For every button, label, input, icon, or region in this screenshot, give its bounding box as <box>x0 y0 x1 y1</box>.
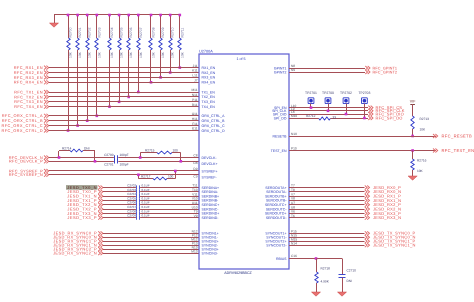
svg-text:R2715: R2715 <box>145 148 155 152</box>
pin SERDOUTB- <box>266 197 295 203</box>
node RFC_ORX_CTRL_A <box>2 113 49 118</box>
pin ORX_CTRL_C <box>192 122 225 128</box>
svg-text:R2717: R2717 <box>141 174 151 178</box>
resistor R2712 <box>306 114 336 120</box>
svg-text:10K: 10K <box>120 51 124 58</box>
svg-text:DNI: DNI <box>84 147 90 151</box>
wire SPI_DO <box>289 118 368 120</box>
node RFC_SPI_DIO <box>368 111 404 116</box>
svg-text:R2718: R2718 <box>321 266 331 270</box>
svg-text:C8: C8 <box>193 154 197 158</box>
svg-text:SERDOUTD-: SERDOUTD- <box>266 216 288 220</box>
wire RFC_ORX_CTRL_D <box>49 130 199 132</box>
node JESD_TX_SYNC1_P <box>365 239 416 244</box>
node RFC_SPI_CLK <box>368 108 404 113</box>
svg-text:SYNCOUT2-: SYNCOUT2- <box>266 243 287 247</box>
svg-text:D8: D8 <box>193 161 197 165</box>
pin SYNCIN3- <box>191 249 218 255</box>
resistor R2708 <box>149 14 156 84</box>
node JESD_RX_SYNC0_N <box>53 235 103 240</box>
ground <box>408 176 417 180</box>
pin SPI_CLK <box>272 107 295 113</box>
pin TX1_EN <box>192 88 216 94</box>
wire GPINT2 <box>289 72 365 74</box>
svg-text:L11: L11 <box>192 74 197 78</box>
pin ORX_CTRL_A <box>192 112 225 118</box>
pin TX4_EN <box>192 103 215 109</box>
node JESD_TX_SYNC1_N <box>365 243 416 248</box>
svg-text:10K: 10K <box>129 51 133 58</box>
pin RBIAS <box>276 254 297 261</box>
node RFC_RESETB <box>433 133 472 138</box>
svg-text:C9: C9 <box>193 174 197 178</box>
node RFC_GPINT1 <box>365 66 397 70</box>
node RFC_RX3_EN <box>14 75 49 80</box>
svg-text:R2716: R2716 <box>417 159 427 163</box>
node RFC_TEST_EN <box>433 148 474 153</box>
capacitor C2709 <box>127 214 150 220</box>
node RFC_SYSREF_N <box>9 172 49 177</box>
wire ground bus <box>54 14 180 16</box>
pin TX2_EN <box>192 93 215 99</box>
test point TP2701 <box>305 91 317 109</box>
svg-text:10K: 10K <box>139 51 143 58</box>
pin SPI_DO <box>274 114 298 120</box>
wire JESD_RX_SYNC2_N <box>103 253 199 255</box>
resistor R2713 <box>411 116 429 137</box>
svg-text:VIF: VIF <box>410 100 416 104</box>
svg-text:R2704: R2704 <box>110 27 114 37</box>
pin SERDOUTC+ <box>265 201 295 207</box>
svg-text:10K: 10K <box>110 51 114 58</box>
pin SERDINC- <box>192 205 220 211</box>
wire SERDOUTB- <box>289 200 365 202</box>
svg-text:M11: M11 <box>192 88 198 92</box>
svg-text:TX2_EN: TX2_EN <box>202 95 216 99</box>
svg-text:JESD_TX3_P: JESD_TX3_P <box>67 215 97 220</box>
wire RFC_RX2_EN <box>49 72 199 74</box>
wire JESD_TX3_P <box>103 217 199 219</box>
svg-text:4.99K: 4.99K <box>321 280 330 284</box>
wire TEST_EN <box>289 150 436 152</box>
svg-text:JESD_TX_SYNC1_N: JESD_TX_SYNC1_N <box>373 243 416 248</box>
svg-text:ORX_CTRL_C: ORX_CTRL_C <box>202 124 226 128</box>
pin SPI_DIO <box>273 110 295 116</box>
pin SYNCIN1+ <box>192 230 219 236</box>
capacitor C2703 <box>127 188 150 194</box>
svg-text:N11: N11 <box>192 93 198 97</box>
svg-text:R2707: R2707 <box>139 27 143 37</box>
wire RFC_TX4_EN <box>49 106 199 108</box>
node JESD_RX0_P <box>365 185 401 190</box>
capacitor C2702 <box>127 184 150 190</box>
svg-text:TX3_EN: TX3_EN <box>202 100 216 104</box>
test point TP2703 <box>358 91 370 119</box>
svg-text:SYSREF+: SYSREF+ <box>202 169 218 173</box>
resistor R2709 <box>159 14 165 79</box>
svg-text:RFC_RESETB: RFC_RESETB <box>442 133 473 138</box>
wire RFC_ORX_CTRL_C <box>49 125 199 127</box>
node JESD_TX3_N <box>67 211 103 216</box>
pin SERDINA- <box>192 188 219 194</box>
wire SPI_CLK <box>289 110 368 112</box>
wire SERDOUTD- <box>289 217 365 219</box>
svg-text:R2702: R2702 <box>88 27 92 37</box>
node RFC_RX4_EN <box>14 80 49 85</box>
svg-text:RFC_SPI_DO: RFC_SPI_DO <box>376 115 403 120</box>
resistor R2714 <box>58 147 97 163</box>
svg-text:SYNCIN3-: SYNCIN3- <box>202 251 219 255</box>
node JESD_TX_SYNC0_P <box>365 231 416 236</box>
svg-text:RFC_RX4_EN: RFC_RX4_EN <box>14 80 43 85</box>
ground <box>337 292 346 296</box>
node JESD_TX2_P <box>67 206 103 211</box>
pin RESETB <box>272 132 297 138</box>
svg-text:DEVCLK+: DEVCLK+ <box>202 162 218 166</box>
wire SYNCOUT1+ <box>289 233 365 235</box>
wire RFC_SYSREF_P <box>49 170 199 172</box>
op-amp U2700A <box>199 50 289 275</box>
wire SERDOUTA+ <box>289 187 365 189</box>
capacitor C2700 <box>104 153 128 160</box>
pin ORX_CTRL_D <box>192 127 225 133</box>
wire JESD_RX_SYNC0_P <box>103 233 199 235</box>
pin SERDIND- <box>194 214 220 220</box>
svg-text:C2701: C2701 <box>104 162 114 166</box>
node JESD_TX0_N <box>66 185 103 190</box>
node JESD_RX2_P <box>365 202 401 207</box>
svg-text:0.1UF: 0.1UF <box>142 214 150 218</box>
pin SYNCOUT1+ <box>265 230 297 236</box>
pin RX1_EN <box>193 64 216 70</box>
node JESD_TX1_N <box>67 194 103 199</box>
svg-text:RBIAS: RBIAS <box>276 257 287 261</box>
capacitor C2704 <box>127 192 150 198</box>
svg-text:RX3_EN: RX3_EN <box>202 76 216 80</box>
test point TP2702 <box>340 91 352 115</box>
node RFC_TX1_EN <box>14 89 49 94</box>
svg-text:RX2_EN: RX2_EN <box>202 71 216 75</box>
svg-text:TX4_EN: TX4_EN <box>202 105 216 109</box>
svg-text:J7: J7 <box>194 79 198 83</box>
node RFC_DEVCLK_P <box>9 159 49 164</box>
resistor R2706 <box>127 14 133 99</box>
svg-text:TP2703: TP2703 <box>358 91 370 95</box>
resistor R2703 <box>95 14 102 117</box>
svg-text:H11: H11 <box>192 117 198 121</box>
svg-text:R2712: R2712 <box>306 114 316 118</box>
pin ORX_CTRL_B <box>192 117 225 123</box>
svg-text:10K: 10K <box>171 51 175 58</box>
node JESD_RX_SYNC2_N <box>53 251 103 256</box>
node RFC_SPI_DO <box>368 115 402 120</box>
node RFC_GPINT2 <box>365 70 397 74</box>
svg-text:C2710: C2710 <box>347 269 357 273</box>
wire JESD_TX3_N <box>103 213 199 215</box>
wire RESETB <box>289 136 436 138</box>
pin DEVCLK- <box>193 154 217 160</box>
svg-text:RFC_ORX_CTRL_D: RFC_ORX_CTRL_D <box>2 128 44 133</box>
wire RFC_RX3_EN <box>49 77 199 79</box>
svg-text:R11: R11 <box>192 103 198 107</box>
resistor R2701 <box>76 14 82 127</box>
capacitor C2710 <box>339 259 357 293</box>
wire JESD_RX_SYNC2_P <box>103 249 199 251</box>
node RFC_DEVCLK_N <box>9 155 49 160</box>
resistor R2705 <box>118 14 124 103</box>
svg-text:RX1_EN: RX1_EN <box>202 66 216 70</box>
wire SERDOUTB+ <box>289 196 365 198</box>
pin SYNCIN2- <box>192 241 219 247</box>
svg-text:R2710: R2710 <box>171 27 175 37</box>
wire SERDOUTA- <box>289 191 365 193</box>
svg-text:10K: 10K <box>78 51 82 58</box>
svg-text:DNI: DNI <box>347 279 353 283</box>
svg-text:R2711: R2711 <box>180 28 184 38</box>
pin SERDOUTA- <box>266 188 295 194</box>
node JESD_RX_SYNC1_N <box>53 243 103 248</box>
pin SYSREF- <box>193 174 217 179</box>
node RFC_ORX_CTRL_D <box>2 128 49 133</box>
node JESD_RX0_N <box>365 189 402 194</box>
svg-text:100pF: 100pF <box>120 153 129 157</box>
pin SYNCIN2+ <box>191 237 218 243</box>
ground <box>49 15 58 27</box>
svg-text:R2701: R2701 <box>78 27 82 37</box>
pin RX3_EN <box>192 74 215 80</box>
svg-text:DEVCLK-: DEVCLK- <box>202 156 218 160</box>
svg-text:R2703: R2703 <box>97 27 101 37</box>
wire SERDOUTD+ <box>289 213 365 215</box>
wire RFC_RX1_EN <box>49 67 199 69</box>
node JESD_RX3_N <box>365 215 402 220</box>
svg-text:J11: J11 <box>193 64 198 68</box>
svg-text:10K: 10K <box>97 51 101 58</box>
svg-text:10K: 10K <box>180 51 184 58</box>
svg-text:JESD_RX_SYNC2_N: JESD_RX_SYNC2_N <box>53 251 97 256</box>
svg-text:R2713: R2713 <box>420 117 430 121</box>
power VIF <box>410 100 416 116</box>
wire GPINT1 <box>289 68 365 70</box>
node RFC_RX1_EN <box>14 65 49 70</box>
svg-text:SPI_DO: SPI_DO <box>274 116 287 120</box>
ground <box>311 292 320 296</box>
svg-text:SERDIND-: SERDIND- <box>202 216 220 220</box>
svg-text:ORX_CTRL_D: ORX_CTRL_D <box>202 129 226 133</box>
wire RFC_DEVCLK_P <box>49 161 199 163</box>
wire JESD_RX_SYNC1_P <box>103 241 199 243</box>
pin GPINT2 <box>274 68 295 74</box>
svg-text:100: 100 <box>168 174 174 178</box>
pin SYNCIN1- <box>192 233 219 239</box>
resistor R2716 <box>411 149 427 176</box>
resistor R2707 <box>137 14 143 94</box>
resistor R2702 <box>86 14 92 122</box>
node JESD_RX_SYNC1_P <box>53 239 103 244</box>
svg-text:JESD_RX3_N: JESD_RX3_N <box>373 215 401 220</box>
svg-text:D9: D9 <box>193 167 197 171</box>
svg-text:R2709: R2709 <box>161 27 165 37</box>
wire JESD_TX2_N <box>103 204 199 206</box>
svg-text:R2706: R2706 <box>129 27 133 37</box>
svg-text:33: 33 <box>333 116 337 120</box>
pin SERDINB- <box>192 197 219 203</box>
pin DEVCLK+ <box>193 161 217 166</box>
pin GPINT1 <box>274 64 295 70</box>
pin RX2_EN <box>192 69 216 75</box>
capacitor C2707 <box>127 205 150 211</box>
svg-text:100pF: 100pF <box>120 162 129 166</box>
svg-text:TEST_EN: TEST_EN <box>271 149 287 153</box>
svg-text:TP2701: TP2701 <box>305 91 317 95</box>
wire RBIAS <box>289 257 342 260</box>
wire RFC_TX3_EN <box>49 101 199 103</box>
pin SERDOUTD- <box>266 214 295 220</box>
node RFC_TX3_EN <box>14 99 49 104</box>
wire RFC_RX4_EN <box>49 82 199 84</box>
wire JESD_RX_SYNC0_N <box>103 237 199 239</box>
svg-text:RFC_GPINT2: RFC_GPINT2 <box>373 70 398 74</box>
svg-text:F11: F11 <box>192 122 197 126</box>
pin SYNCOUT2+ <box>265 237 297 243</box>
wire RFC_ORX_CTRL_B <box>49 120 199 122</box>
pin SPI_EN <box>274 104 296 110</box>
svg-text:E11: E11 <box>192 127 198 131</box>
node RFC_TX2_EN <box>14 94 49 99</box>
svg-text:10K: 10K <box>152 51 156 58</box>
svg-text:RFC_TEST_EN: RFC_TEST_EN <box>442 148 474 153</box>
resistor R2717 <box>137 170 177 180</box>
pin SERDOUTA+ <box>265 184 295 190</box>
svg-text:10K: 10K <box>88 51 92 58</box>
pin SYSREF+ <box>193 167 217 173</box>
svg-text:C2709: C2709 <box>127 214 136 218</box>
capacitor C2706 <box>127 201 150 207</box>
pin TX3_EN <box>192 98 215 104</box>
test point TP2700 <box>322 91 334 112</box>
wire JESD_TX1_P <box>103 200 199 202</box>
wire SPI_DIO <box>289 114 368 116</box>
node RFC_RX2_EN <box>14 70 49 75</box>
wire RFC_TX2_EN <box>49 96 199 98</box>
svg-text:TP2702: TP2702 <box>340 91 352 95</box>
pin SYNCIN3+ <box>192 245 219 251</box>
node JESD_TX0_P <box>67 189 103 194</box>
svg-text:1 of 5: 1 of 5 <box>237 57 246 61</box>
pin RX4_EN <box>194 79 215 85</box>
node JESD_RX1_P <box>365 194 401 199</box>
svg-text:10K: 10K <box>69 51 73 58</box>
node RFC_SYSREF_P <box>9 168 49 173</box>
svg-text:M10: M10 <box>291 114 297 118</box>
svg-text:ADRV9029BBCZ: ADRV9029BBCZ <box>224 271 252 275</box>
wire SPI_EN <box>289 107 368 109</box>
wire SYNCOUT2- <box>289 245 365 247</box>
svg-text:RFC_SYSREF_N: RFC_SYSREF_N <box>9 172 43 177</box>
svg-text:10K: 10K <box>417 169 424 173</box>
resistor R2711 <box>178 14 185 69</box>
svg-text:P11: P11 <box>192 98 198 102</box>
svg-text:10K: 10K <box>161 51 165 58</box>
wire JESD_TX0_N <box>103 187 199 189</box>
svg-text:R2714: R2714 <box>62 147 72 151</box>
node RFC_ORX_CTRL_C <box>2 123 49 128</box>
svg-text:K11: K11 <box>192 69 198 73</box>
node JESD_TX3_P <box>67 215 103 220</box>
svg-text:10K: 10K <box>420 128 427 132</box>
pin SERDINC+ <box>192 201 219 207</box>
pin SERDOUTC- <box>266 205 296 211</box>
svg-text:C2700: C2700 <box>104 153 114 157</box>
node RFC_SPI_CS <box>368 105 402 110</box>
svg-text:RFC_DEVCLK_P: RFC_DEVCLK_P <box>9 159 43 164</box>
wire SERDOUTC+ <box>289 204 365 206</box>
svg-text:C16: C16 <box>291 254 297 258</box>
wire SYNCOUT2+ <box>289 241 365 243</box>
node JESD_RX1_N <box>365 198 402 203</box>
pin SERDINB+ <box>192 192 219 198</box>
pin SERDINA+ <box>192 184 219 190</box>
node JESD_RX_SYNC2_P <box>53 247 103 252</box>
node JESD_TX2_N <box>67 202 103 207</box>
wire JESD_TX0_P <box>103 191 199 193</box>
wire RFC_SYSREF_N <box>49 174 199 176</box>
node JESD_RX2_N <box>365 206 402 211</box>
wire JESD_RX_SYNC1_N <box>103 245 199 247</box>
svg-text:M13: M13 <box>191 249 197 253</box>
node JESD_TX1_P <box>67 198 103 203</box>
pin SERDOUTD+ <box>265 210 295 216</box>
svg-text:SYSREF-: SYSREF- <box>202 175 218 179</box>
svg-text:N14: N14 <box>291 241 297 245</box>
capacitor C2708 <box>127 209 150 215</box>
pin SERDIND+ <box>194 210 220 216</box>
wire RFC_ORX_CTRL_A <box>49 115 199 117</box>
resistor R2718 <box>315 259 330 293</box>
wire JESD_TX1_N <box>103 196 199 198</box>
svg-text:V9: V9 <box>194 214 198 218</box>
svg-text:R2700: R2700 <box>69 27 73 37</box>
svg-text:N9: N9 <box>291 68 295 72</box>
wire SERDOUTC- <box>289 209 365 211</box>
svg-text:R2705: R2705 <box>120 27 124 37</box>
capacitor C2701 <box>104 159 128 166</box>
wire RFC_TX1_EN <box>49 92 199 94</box>
node JESD_RX_SYNC0_P <box>53 231 103 236</box>
svg-text:GPINT2: GPINT2 <box>274 70 287 74</box>
node JESD_RX3_P <box>365 211 401 216</box>
pin SYNCOUT1- <box>266 233 297 239</box>
svg-text:N10: N10 <box>291 132 297 136</box>
svg-text:R2708: R2708 <box>152 27 156 37</box>
svg-text:100: 100 <box>173 148 179 152</box>
wire JESD_TX2_P <box>103 209 199 211</box>
capacitor C2705 <box>127 196 150 202</box>
wire RFC_DEVCLK_N <box>49 157 199 159</box>
svg-text:RFC_TX4_EN: RFC_TX4_EN <box>14 104 43 109</box>
svg-text:ORX_CTRL_A: ORX_CTRL_A <box>202 114 226 118</box>
resistor R2700 <box>67 14 73 132</box>
pin SERDOUTB+ <box>265 192 295 198</box>
pin SYNCOUT2- <box>266 241 297 247</box>
node JESD_TX_SYNC0_N <box>365 235 416 240</box>
pin TEST_EN <box>271 147 297 153</box>
node RFC_ORX_CTRL_B <box>2 118 49 123</box>
svg-text:U2700A: U2700A <box>199 50 213 54</box>
resistor R2704 <box>108 14 114 108</box>
svg-text:RESETB: RESETB <box>272 134 287 138</box>
svg-text:ORX_CTRL_B: ORX_CTRL_B <box>202 119 226 123</box>
